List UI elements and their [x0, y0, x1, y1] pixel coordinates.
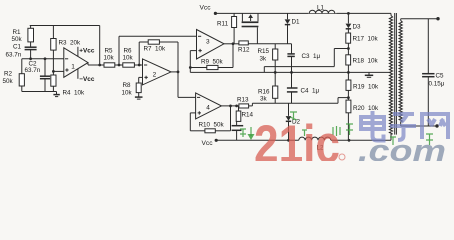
resistor R1 [30, 26, 32, 29]
resistor R6 10k [123, 63, 135, 67]
node R19/R20 [347, 90, 349, 100]
capacitor C3 1u [291, 44, 293, 54]
resistor R8 10k [136, 83, 141, 93]
wire R7 to op-amp 2 output [159, 41, 178, 43]
wire feedback riser to op-amp 1 output [99, 26, 101, 66]
svg-text:R3 20k: R3 20k [59, 40, 82, 47]
svg-text:R5: R5 [105, 48, 114, 55]
svg-text:C5: C5 [436, 73, 445, 80]
svg-text:−Vcc: −Vcc [79, 76, 95, 83]
svg-text:R17 10k: R17 10k [353, 36, 379, 43]
resistor R5 10k [104, 63, 115, 67]
svg-text:Vcc: Vcc [202, 140, 214, 147]
resistor R14 [238, 106, 240, 111]
svg-text:R11: R11 [217, 21, 229, 28]
wire R9 to op-amp 3 output [218, 67, 233, 69]
wire R15 to mid bus [274, 60, 276, 72]
svg-text:R14: R14 [242, 112, 254, 119]
wire R20 to bottom rail [347, 113, 349, 141]
wire op-amp 4 + input [190, 112, 195, 114]
watermark dianzi wang blue characters [361, 111, 448, 141]
svg-text:R10 50k: R10 50k [199, 122, 225, 129]
wire feedback riser R7 [138, 42, 140, 65]
node divider tap to op-amp 1 + input [52, 70, 55, 73]
svg-text:R7 10k: R7 10k [144, 46, 167, 53]
node R17/R18 [347, 43, 349, 55]
+Vcc stub op-amp 1 [77, 47, 79, 57]
resistor R17 10k [346, 33, 351, 43]
resistor R13 [239, 104, 249, 108]
svg-text:D3: D3 [353, 24, 362, 31]
svg-text:R12: R12 [238, 47, 250, 54]
wire R1 to C1 [30, 42, 32, 47]
wire R16 to node N2 [274, 98, 276, 103]
op-amp U2 [143, 59, 172, 85]
svg-text:3k: 3k [260, 56, 268, 63]
svg-text:C3 1μ: C3 1μ [302, 53, 321, 60]
-Vcc stub op-amp 1 [77, 69, 79, 79]
resistor R19 10k [346, 80, 351, 90]
wire op-amp 2 + input to R8 [139, 76, 143, 78]
svg-text:Vcc: Vcc [200, 5, 212, 12]
wire R18 to mid bus [347, 65, 349, 80]
op-amp U4 [196, 93, 222, 119]
wire top feedback bus (left) [30, 25, 100, 27]
resistor R2 [21, 59, 23, 74]
svg-text:R8: R8 [123, 82, 132, 89]
svg-text:R9 50k: R9 50k [201, 59, 224, 66]
svg-text:50k: 50k [3, 78, 14, 85]
wire R11 to output node [233, 28, 235, 44]
svg-text:10k: 10k [104, 55, 115, 62]
svg-text:1: 1 [71, 64, 75, 71]
capacitor C4 1u [291, 72, 293, 87]
wire secondary top to output terminal [401, 18, 438, 20]
wire C2 to bottom rail [44, 79, 46, 92]
op-amp U3 [197, 30, 225, 60]
wire R3 to R4 divider [52, 50, 54, 75]
wire Vcc top rail [215, 12, 391, 14]
wire bottom rail left [52, 86, 54, 91]
diode D1 [287, 13, 289, 19]
resistor R16 3k [274, 72, 276, 86]
svg-text:2: 2 [153, 72, 157, 79]
transistor Q1 (AGC element) [241, 13, 243, 21]
wire node N1 horizontal [248, 43, 291, 45]
svg-text:4: 4 [206, 105, 210, 112]
resistor R11 [233, 13, 235, 16]
op-amp U1 [64, 48, 88, 78]
svg-text:.com: .com [358, 133, 446, 161]
resistor R3 20k [52, 26, 54, 39]
wire op-amp 4 output [221, 105, 239, 107]
capacitor C1 63.7n [25, 46, 37, 48]
svg-text:R19 10k: R19 10k [353, 84, 379, 91]
resistor R15 3k [274, 44, 276, 49]
resistor R10 50k [205, 129, 215, 133]
transformer core [394, 13, 396, 135]
wire R5/R6 tap to op-amp 3 inverting input [118, 36, 120, 65]
wire R6 to op-amp 2 inverting input [134, 64, 142, 66]
node A wire to op-amp 1 inverting input [22, 58, 64, 60]
wire op-amp 2 output to op-amp 3 + input [190, 50, 196, 52]
svg-text:R4 10k: R4 10k [63, 90, 86, 97]
wire op-amp 2 output node [171, 71, 178, 73]
resistor R9 50k [190, 67, 207, 69]
wire R13 to node N2 [249, 105, 253, 107]
wire C1 to node A [30, 50, 32, 59]
svg-text:L1: L1 [317, 5, 325, 12]
svg-text:63.7n: 63.7n [6, 52, 22, 59]
svg-text:R20 10k: R20 10k [353, 105, 379, 112]
ground on mid bus [368, 72, 370, 75]
wire R2 to bottom rail [21, 86, 23, 92]
wire N2 to R19/R20 node [337, 98, 339, 104]
wire R10 to op-amp 4 output [215, 130, 230, 132]
resistor R12 [239, 41, 248, 45]
svg-text:D1: D1 [292, 19, 301, 26]
ground (left block) [56, 92, 58, 95]
capacitor C5 0.15u [427, 19, 429, 74]
diode D2 [288, 103, 290, 116]
svg-text:3k: 3k [260, 96, 268, 103]
diode D3 [347, 12, 350, 15]
svg-text:3: 3 [206, 39, 210, 46]
svg-text:63.7n: 63.7n [25, 67, 41, 74]
capacitor below R14 [236, 121, 238, 125]
resistor R20 10k [346, 100, 351, 113]
svg-text:50k: 50k [12, 36, 23, 43]
transformer T1 secondary winding [399, 21, 402, 122]
wire AGC link riser [263, 67, 265, 73]
svg-text:+Vcc: +Vcc [79, 48, 95, 55]
wire C3 to mid bus [291, 57, 293, 73]
inductor L1 [308, 9, 337, 13]
resistor R4 10k [51, 75, 56, 86]
Vcc terminal (top) [214, 12, 217, 15]
wire op-amp 1 output [87, 63, 89, 65]
resistor R18 10k [346, 55, 351, 65]
svg-text:R6: R6 [124, 48, 133, 55]
svg-text:10k: 10k [122, 90, 133, 97]
wire secondary bottom to output terminal [401, 125, 437, 127]
svg-text:10k: 10k [123, 55, 134, 62]
inductor L2 [299, 137, 331, 140]
svg-text:R13: R13 [237, 97, 249, 104]
svg-text:21ic: 21ic [254, 115, 340, 162]
svg-text:R18 10k: R18 10k [353, 58, 379, 65]
resistor R7 10k [148, 40, 159, 44]
wire C4 to node N2 [291, 92, 293, 103]
node R5/R6 junction [115, 64, 123, 66]
wire Q1 to node N1 [256, 27, 258, 44]
wire mid bus [190, 71, 391, 73]
ground below R8 [138, 93, 140, 97]
svg-text:C4 1μ: C4 1μ [301, 88, 320, 95]
svg-text:R16: R16 [258, 89, 270, 96]
wire to op-amp 4 inverting input [178, 96, 196, 98]
wire op-amp 3 output [224, 43, 239, 45]
watermark green marks [240, 112, 433, 145]
wire bottom rail [216, 139, 299, 141]
transformer T1 primary winding [389, 16, 392, 135]
svg-text:R1: R1 [13, 29, 22, 36]
svg-text:R15: R15 [258, 48, 270, 55]
svg-text:0.15μ: 0.15μ [429, 81, 445, 88]
capacitor C2 63.7n [44, 59, 46, 76]
wire AGC line to R17/R18 node [264, 66, 334, 68]
svg-text:R2: R2 [4, 71, 13, 78]
svg-text:C1: C1 [13, 44, 22, 51]
